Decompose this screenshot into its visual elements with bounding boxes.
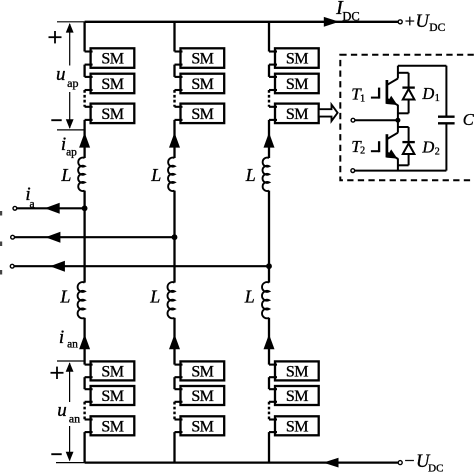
svg-text:SM: SM [286,76,308,93]
svg-text:SM: SM [101,388,123,405]
svg-text:SM: SM [191,76,213,93]
svg-text:SM: SM [191,106,213,123]
svg-text:SM: SM [101,76,123,93]
svg-text:DC: DC [342,10,359,24]
svg-text:i: i [59,327,64,348]
svg-text:+: + [405,11,415,31]
svg-text:SM: SM [101,106,123,123]
svg-text:D: D [421,84,434,103]
svg-text:SM: SM [191,363,213,380]
svg-text:SM: SM [286,418,308,435]
svg-text:SM: SM [191,388,213,405]
svg-text:C: C [463,110,474,129]
svg-text:SM: SM [101,418,123,435]
svg-text:SM: SM [191,51,213,68]
svg-text:L: L [149,287,160,307]
svg-text:1: 1 [435,93,440,104]
svg-text:2: 2 [360,146,365,157]
svg-text:1: 1 [360,93,365,104]
svg-text:SM: SM [101,51,123,68]
svg-text:L: L [245,165,256,185]
svg-text:an: an [69,411,80,425]
svg-text:u: u [57,400,67,421]
svg-text:2: 2 [435,146,440,157]
svg-text:SM: SM [191,418,213,435]
svg-text:ap: ap [67,76,78,90]
svg-text:a: a [29,198,34,210]
svg-text:ap: ap [66,147,77,159]
svg-text:D: D [421,137,434,156]
svg-text:L: L [60,165,71,185]
svg-text:L: L [59,287,70,307]
svg-text:L: L [150,165,161,185]
svg-text:SM: SM [286,363,308,380]
svg-text:SM: SM [286,106,308,123]
svg-text:−: − [404,451,414,471]
svg-text:DC: DC [428,463,443,474]
svg-text:u: u [56,64,66,85]
svg-text:SM: SM [286,51,308,68]
svg-text:SM: SM [286,388,308,405]
svg-text:U: U [416,12,431,32]
svg-text:SM: SM [101,363,123,380]
svg-text:an: an [67,339,78,351]
svg-text:DC: DC [429,22,445,34]
svg-text:L: L [244,287,255,307]
